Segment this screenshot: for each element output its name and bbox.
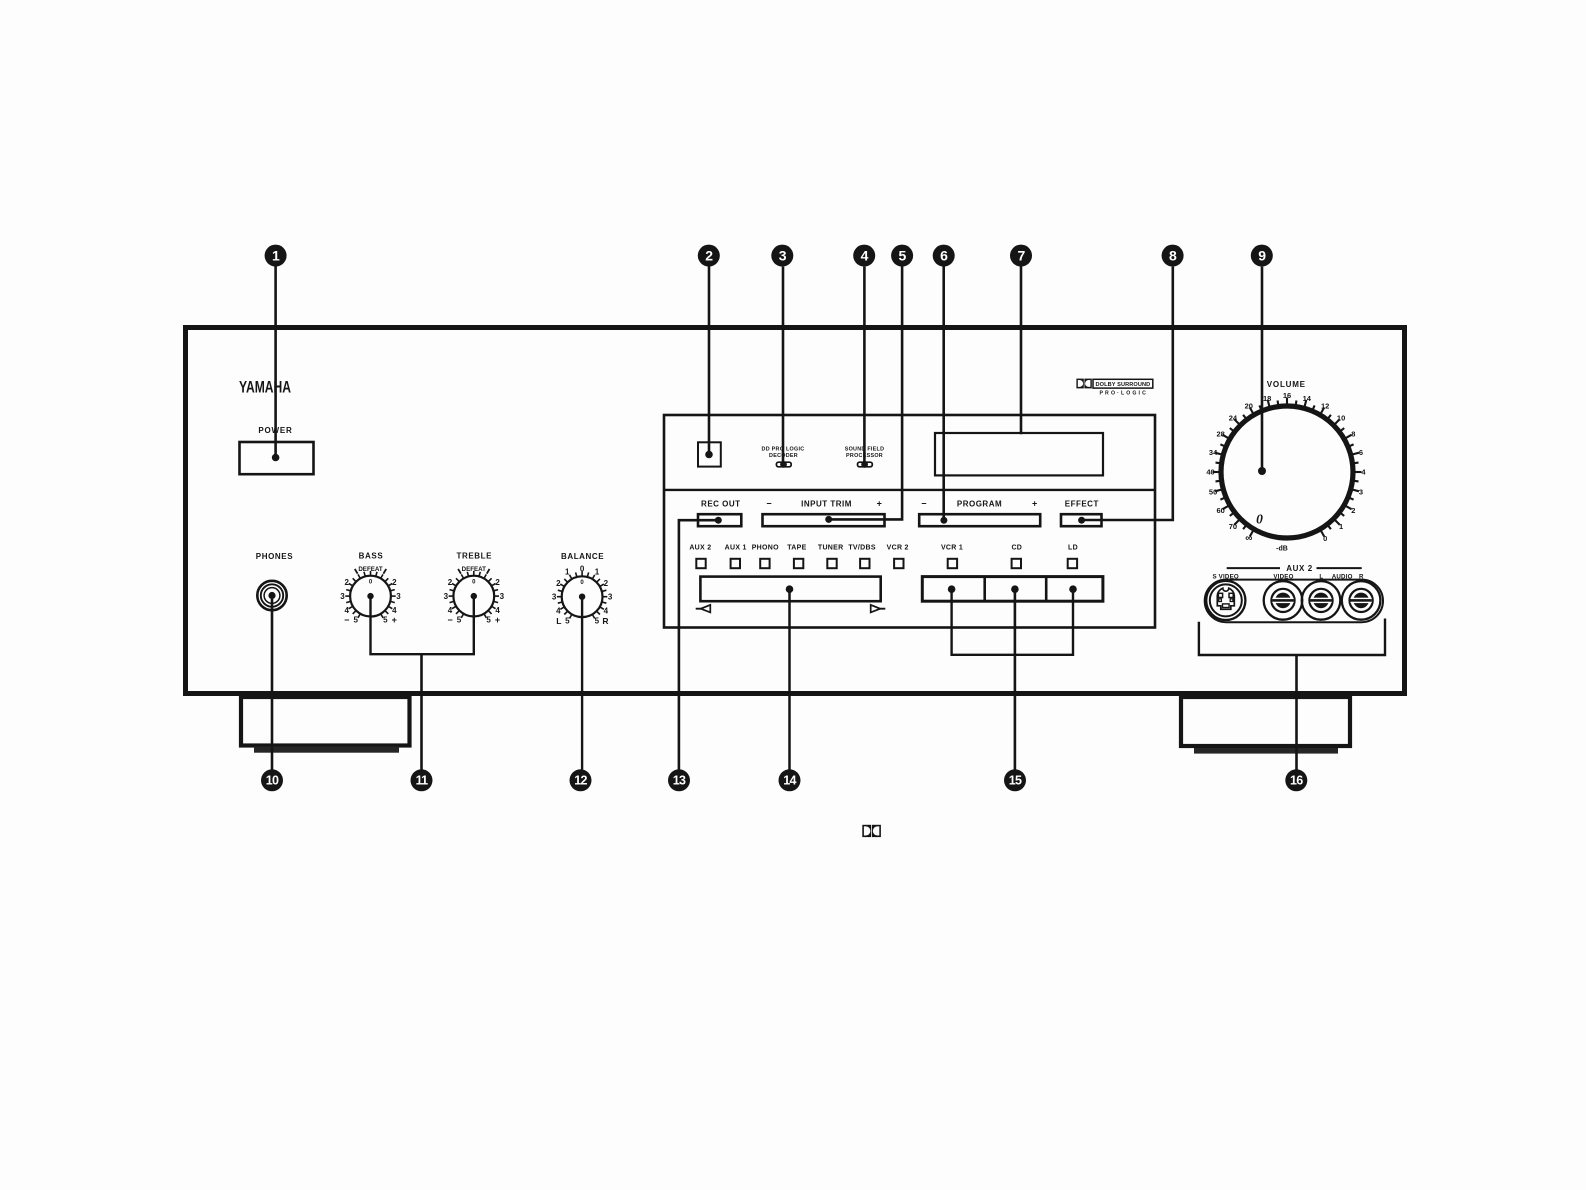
callout 10 bbox=[261, 769, 283, 791]
VCR1/CD/LD direct buttons bbox=[922, 577, 1103, 602]
display window bbox=[935, 433, 1103, 475]
svg-text:0: 0 bbox=[580, 565, 585, 574]
decoder LED bbox=[776, 462, 791, 467]
svg-text:4: 4 bbox=[392, 606, 397, 615]
svg-text:60: 60 bbox=[1217, 506, 1225, 515]
svg-text:34: 34 bbox=[1209, 448, 1218, 457]
remote sensor window bbox=[698, 442, 721, 466]
INPUT TRIM slider bbox=[763, 514, 885, 526]
svg-text:15: 15 bbox=[1009, 774, 1022, 788]
PHONES jack bbox=[257, 581, 286, 610]
svg-text:4: 4 bbox=[604, 606, 609, 615]
callout 7 bbox=[1010, 245, 1032, 267]
svg-text:3: 3 bbox=[444, 592, 449, 601]
wire callout 11 bbox=[371, 596, 474, 654]
svg-text:16: 16 bbox=[1290, 774, 1303, 788]
selector left arrow bbox=[701, 605, 711, 613]
svg-text:10: 10 bbox=[1337, 414, 1345, 423]
svg-text:20: 20 bbox=[1245, 401, 1253, 410]
svg-text:−: − bbox=[921, 499, 926, 509]
wire callout 10 bbox=[271, 596, 274, 770]
wire callout 7 bbox=[1020, 266, 1023, 434]
svg-text:−: − bbox=[344, 615, 349, 625]
svg-text:TUNER: TUNER bbox=[818, 545, 844, 552]
svg-text:0: 0 bbox=[1323, 534, 1327, 543]
svg-text:2: 2 bbox=[705, 248, 713, 264]
svg-text:16: 16 bbox=[1283, 391, 1291, 400]
input source labels bbox=[689, 545, 1078, 552]
svg-text:DEFEAT: DEFEAT bbox=[462, 566, 487, 573]
wire callout 4 bbox=[863, 267, 866, 465]
svg-text:1: 1 bbox=[565, 568, 570, 577]
svg-text:+: + bbox=[495, 615, 500, 625]
svg-text:−: − bbox=[447, 615, 452, 625]
svg-text:7: 7 bbox=[1017, 248, 1025, 264]
svg-text:−: − bbox=[766, 499, 771, 509]
svg-text:3: 3 bbox=[552, 593, 557, 602]
svg-text:4: 4 bbox=[448, 606, 453, 615]
svg-text:2: 2 bbox=[392, 578, 397, 587]
callout 11 bbox=[411, 769, 433, 791]
svg-text:10: 10 bbox=[266, 774, 279, 788]
callout 6 bbox=[933, 245, 955, 267]
svg-text:6: 6 bbox=[1359, 448, 1363, 457]
wire callout 5 bbox=[829, 266, 902, 519]
svg-text:0: 0 bbox=[1256, 512, 1263, 527]
svg-text:INPUT TRIM: INPUT TRIM bbox=[801, 500, 852, 509]
svg-text:-dB: -dB bbox=[1276, 546, 1288, 553]
svg-text:40: 40 bbox=[1206, 468, 1214, 477]
callout 13 bbox=[668, 769, 690, 791]
svg-text:+: + bbox=[392, 615, 397, 625]
svg-text:VCR 2: VCR 2 bbox=[887, 545, 909, 552]
callout 12 bbox=[570, 769, 592, 791]
svg-text:11: 11 bbox=[416, 774, 429, 788]
svg-text:REC OUT: REC OUT bbox=[701, 500, 741, 509]
front panel chassis outline bbox=[186, 328, 1405, 694]
svg-text:14: 14 bbox=[1303, 394, 1312, 403]
svg-text:5: 5 bbox=[899, 248, 907, 264]
svg-text:4: 4 bbox=[556, 606, 561, 615]
S-video jack bbox=[1206, 581, 1245, 620]
Dolby double-D trademark bbox=[862, 825, 881, 837]
svg-text:3: 3 bbox=[396, 592, 401, 601]
svg-text:2: 2 bbox=[1351, 506, 1355, 515]
wire callout 13 bbox=[679, 520, 718, 769]
R AUDIO RCA jack bbox=[1342, 581, 1381, 620]
central box divider bbox=[664, 489, 1155, 491]
svg-text:5: 5 bbox=[353, 616, 358, 625]
central display/control box bbox=[664, 415, 1155, 628]
svg-text:AUX 2: AUX 2 bbox=[1286, 564, 1313, 573]
svg-text:1: 1 bbox=[272, 248, 280, 264]
svg-text:+: + bbox=[1032, 499, 1037, 509]
svg-text:12: 12 bbox=[574, 774, 587, 788]
PROGRAM slider bbox=[919, 514, 1040, 526]
svg-text:YAMAHA: YAMAHA bbox=[239, 378, 291, 397]
callout 5 bbox=[891, 245, 913, 267]
svg-text:CD: CD bbox=[1011, 545, 1022, 552]
wire callout 6 bbox=[942, 266, 945, 520]
svg-text:LD: LD bbox=[1068, 545, 1078, 552]
svg-text:13: 13 bbox=[673, 774, 686, 788]
svg-text:2: 2 bbox=[448, 578, 453, 587]
callout 14 bbox=[779, 769, 801, 791]
svg-text:24: 24 bbox=[1229, 414, 1238, 423]
svg-text:BASS: BASS bbox=[359, 552, 384, 561]
svg-text:12: 12 bbox=[1321, 401, 1329, 410]
wire callout 16 bbox=[1199, 619, 1385, 656]
wire callout 3 bbox=[782, 267, 785, 465]
svg-text:L: L bbox=[556, 616, 561, 626]
svg-text:3: 3 bbox=[779, 248, 787, 264]
REC OUT button bbox=[698, 514, 741, 526]
svg-text:50: 50 bbox=[1209, 488, 1217, 497]
svg-text:TAPE: TAPE bbox=[787, 545, 806, 552]
wire callout 14 bbox=[788, 589, 791, 769]
svg-text:TREBLE: TREBLE bbox=[456, 552, 492, 561]
wire callout 9 bbox=[1261, 267, 1264, 471]
wire callout 12 bbox=[581, 597, 583, 770]
right foot bbox=[1181, 697, 1350, 746]
svg-text:4: 4 bbox=[344, 606, 349, 615]
VIDEO RCA jack bbox=[1264, 581, 1303, 620]
processor LED bbox=[858, 462, 873, 467]
svg-text:5: 5 bbox=[486, 616, 491, 625]
callout 9 bbox=[1251, 245, 1273, 267]
svg-text:4: 4 bbox=[495, 606, 500, 615]
volume knob dial bbox=[1206, 391, 1366, 544]
svg-text:2: 2 bbox=[495, 578, 500, 587]
svg-text:AUX 1: AUX 1 bbox=[725, 545, 747, 552]
svg-text:VCR 1: VCR 1 bbox=[941, 545, 963, 552]
wire callout 15 bbox=[952, 589, 1073, 655]
svg-text:3: 3 bbox=[1359, 488, 1363, 497]
svg-text:PROGRAM: PROGRAM bbox=[957, 500, 1002, 509]
callout 1 bbox=[265, 245, 287, 267]
svg-text:P R O · L O G I C: P R O · L O G I C bbox=[1100, 391, 1147, 397]
svg-text:∞: ∞ bbox=[1245, 533, 1252, 544]
BALANCE knob bbox=[552, 565, 613, 626]
wire callout 8 bbox=[1082, 267, 1173, 520]
svg-text:18: 18 bbox=[1263, 394, 1271, 403]
svg-text:5: 5 bbox=[595, 616, 600, 625]
svg-text:2: 2 bbox=[604, 579, 609, 588]
svg-text:1: 1 bbox=[1339, 522, 1343, 531]
Dolby Surround Pro-Logic logo bbox=[1076, 379, 1152, 397]
svg-text:BALANCE: BALANCE bbox=[561, 552, 604, 561]
left foot bbox=[241, 697, 410, 746]
wire callout 1 bbox=[274, 266, 277, 457]
svg-text:R: R bbox=[602, 616, 608, 626]
svg-text:5: 5 bbox=[457, 616, 462, 625]
svg-text:9: 9 bbox=[1258, 248, 1266, 264]
selector right arrow bbox=[871, 605, 881, 613]
svg-text:8: 8 bbox=[1351, 429, 1355, 438]
callout 3 bbox=[771, 245, 793, 267]
wire callout 2 bbox=[708, 266, 711, 454]
jack mounting plate bbox=[1205, 580, 1383, 623]
svg-text:+: + bbox=[877, 499, 882, 509]
EFFECT button bbox=[1061, 514, 1102, 526]
svg-text:VOLUME: VOLUME bbox=[1267, 380, 1306, 389]
callout 2 bbox=[698, 245, 720, 267]
svg-text:3: 3 bbox=[608, 593, 613, 602]
svg-text:2: 2 bbox=[344, 578, 349, 587]
BASS knob bbox=[340, 566, 401, 625]
svg-text:DEFEAT: DEFEAT bbox=[358, 566, 383, 573]
input indicator LEDs bbox=[696, 559, 1077, 568]
svg-text:1: 1 bbox=[595, 568, 600, 577]
svg-text:PHONES: PHONES bbox=[256, 552, 293, 561]
svg-text:3: 3 bbox=[500, 592, 505, 601]
POWER button bbox=[240, 442, 314, 474]
svg-text:14: 14 bbox=[783, 774, 796, 788]
svg-text:5: 5 bbox=[565, 616, 570, 625]
callout 15 bbox=[1004, 769, 1026, 791]
svg-text:EFFECT: EFFECT bbox=[1065, 500, 1099, 509]
svg-text:2: 2 bbox=[556, 579, 561, 588]
svg-text:28: 28 bbox=[1217, 429, 1225, 438]
svg-text:4: 4 bbox=[861, 248, 869, 264]
callout 4 bbox=[853, 245, 875, 267]
svg-text:6: 6 bbox=[940, 248, 948, 264]
svg-text:8: 8 bbox=[1169, 248, 1177, 264]
svg-text:DOLBY SURROUND: DOLBY SURROUND bbox=[1096, 382, 1151, 388]
TREBLE knob bbox=[444, 566, 505, 625]
callout 8 bbox=[1162, 245, 1184, 267]
svg-text:PHONO: PHONO bbox=[752, 545, 779, 552]
svg-text:AUX 2: AUX 2 bbox=[689, 545, 711, 552]
svg-text:3: 3 bbox=[340, 592, 345, 601]
input selector rocker button bbox=[700, 577, 880, 602]
callout 16 bbox=[1285, 769, 1307, 791]
svg-text:5: 5 bbox=[383, 616, 388, 625]
svg-text:70: 70 bbox=[1229, 522, 1237, 531]
svg-text:TV/DBS: TV/DBS bbox=[848, 545, 875, 552]
L AUDIO RCA jack bbox=[1302, 581, 1341, 620]
